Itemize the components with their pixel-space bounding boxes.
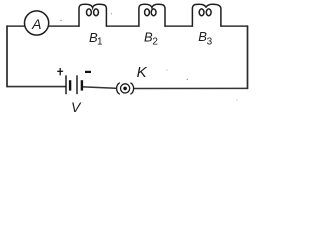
svg-text:2: 2 <box>152 37 158 48</box>
ammeter A <box>24 11 48 35</box>
label B3 <box>198 29 212 48</box>
battery V plate long 2 <box>76 75 78 94</box>
wire top-left horizontal <box>7 25 25 27</box>
wire bottom-left to battery <box>7 86 66 88</box>
wire battery to switch <box>83 87 115 88</box>
inductor B1 <box>79 4 106 26</box>
svg-text:A: A <box>31 16 41 32</box>
wire B1 to B2 <box>106 25 138 27</box>
battery V plate short 2 <box>81 80 83 90</box>
label B1 <box>89 30 103 48</box>
inductor B2 <box>139 4 165 26</box>
switch K <box>117 83 134 95</box>
wire B2 to B3 <box>165 25 192 27</box>
scan speck dots <box>60 13 237 100</box>
wire right vertical <box>247 26 249 88</box>
battery V plate short 1 <box>69 80 71 90</box>
svg-text:K: K <box>137 64 148 81</box>
wire B3 to top-right corner <box>221 25 248 27</box>
battery V plate long 1 <box>65 75 67 94</box>
wire ammeter to B1 <box>49 25 79 27</box>
battery plus sign <box>57 68 63 75</box>
label B2 <box>144 29 158 47</box>
wire switch to bottom-right corner <box>134 87 248 89</box>
svg-text:1: 1 <box>97 37 103 48</box>
inductor B3 <box>192 4 221 26</box>
svg-text:3: 3 <box>207 37 213 48</box>
wire left vertical <box>6 26 8 87</box>
battery minus sign <box>85 71 91 73</box>
svg-text:V: V <box>71 99 82 115</box>
